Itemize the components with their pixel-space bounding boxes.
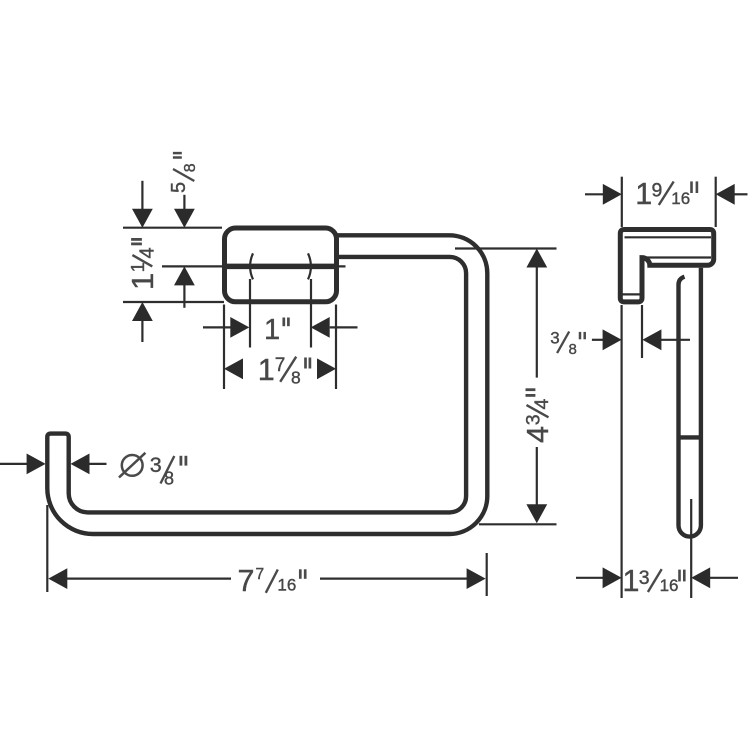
dim 1-3/16: left arrow (576, 577, 605, 579)
dim dia 3/8: right arrow (89, 463, 107, 465)
dim 1-3/16: right arrow (709, 577, 738, 579)
wire: 1-9/16 left extension (621, 177, 623, 227)
dim 1-9/16: right arrow (734, 193, 748, 195)
dim 1-7/8: left arrow (224, 358, 243, 379)
svg-text:8: 8 (569, 341, 577, 358)
wall plate inner line (623, 293, 641, 295)
bracket outline (wall plate + arm) (620, 230, 713, 302)
wire: 1in right extension (310, 279, 312, 348)
dim dia 3/8: left arrow (0, 463, 28, 465)
svg-text:3: 3 (522, 414, 544, 425)
dim 4-3/4: line + arrows (536, 267, 538, 378)
svg-text:16: 16 (671, 189, 690, 208)
svg-text:3: 3 (639, 567, 650, 589)
wire: bottom extension line (block bottom) (123, 301, 224, 303)
svg-text:1: 1 (258, 353, 275, 387)
wire: middle extension line (tube centre at block) (162, 265, 346, 267)
tube joint line (679, 435, 701, 439)
svg-text:3: 3 (150, 453, 162, 477)
wire: plate front extension (641, 305, 643, 358)
wire: 4-3/4 top extension (455, 247, 557, 249)
node: post circle left arc (250, 253, 253, 279)
bracket chamfer line (625, 236, 712, 238)
label 5/8" (rotated) (168, 153, 199, 193)
wire: 4-3/4 bottom extension (479, 523, 557, 525)
svg-text:4: 4 (531, 399, 553, 410)
wire: 7-7/16 left extension (46, 505, 48, 592)
svg-text:1: 1 (125, 273, 160, 290)
mounting block (225, 228, 337, 302)
svg-text:1: 1 (623, 564, 640, 598)
dim 1in: left arrow (203, 326, 231, 328)
svg-text:4: 4 (521, 426, 555, 443)
wire: 1-7/8 right extension (335, 305, 337, 390)
dim 1-1/4: upper arrow (141, 181, 143, 210)
label 4 3/4" (rotated) (521, 390, 555, 443)
svg-text:9: 9 (652, 179, 663, 201)
wire: 1in left extension (249, 279, 251, 348)
dim 1in: right arrow (330, 326, 358, 328)
dim 5/8: upper arrow (183, 195, 185, 210)
svg-text:8: 8 (182, 163, 199, 172)
dim 3/8: left arrow (592, 339, 605, 341)
svg-text:16: 16 (277, 576, 296, 595)
svg-text:1: 1 (264, 314, 280, 346)
svg-text:7: 7 (275, 355, 286, 376)
block middle bar (225, 264, 336, 270)
dim 5/8: lower arrow (183, 285, 185, 308)
wire: top extension line (block top) (123, 227, 222, 229)
tube top line (under arm) (646, 256, 711, 258)
svg-text:8: 8 (291, 367, 301, 387)
dim 1-9/16: left arrow (585, 193, 604, 195)
svg-text:7: 7 (256, 566, 265, 583)
dim 7-7/16: line + arrows (66, 577, 231, 579)
tube side profile (679, 268, 701, 537)
wire: 1-9/16 right extension (715, 177, 717, 227)
ring tube outline (47, 235, 487, 534)
svg-text:3: 3 (550, 329, 559, 348)
wire: 7-7/16 right extension (486, 553, 488, 596)
dim 1-7/8: right arrow (317, 358, 336, 379)
svg-text:16: 16 (660, 576, 679, 595)
label 1 1/4" (rotated) (125, 239, 160, 290)
label dia 3/8" (122, 455, 143, 476)
wire: tube centre extension (690, 499, 692, 598)
svg-text:5: 5 (168, 182, 190, 193)
svg-text:7: 7 (238, 564, 255, 598)
node: post circle right arc (308, 253, 311, 279)
svg-text:8: 8 (164, 469, 174, 489)
svg-text:1: 1 (635, 177, 652, 211)
wire: wall face extension (3/8 + 1-3/16) (620, 305, 622, 598)
dim 3/8: right arrow (660, 339, 690, 341)
wire: 1-7/8 left extension (223, 305, 225, 390)
svg-text:4: 4 (137, 247, 159, 258)
dim 1-1/4: lower arrow (141, 320, 143, 342)
